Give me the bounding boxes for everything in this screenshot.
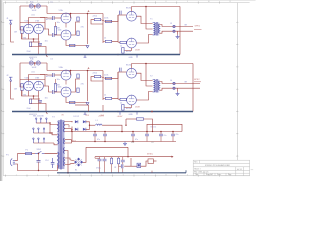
svg-text:100k: 100k (58, 30, 62, 32)
wire grid V2B ch1 (54, 34, 61, 36)
wire bypass drop ch2 (38, 96, 40, 112)
bus ground tick 2 ch2 (84, 112, 87, 115)
ground speaker ch2 (176, 92, 180, 96)
svg-text:1: 1 (16, 174, 17, 176)
wire B+ filter rail (72, 131, 182, 133)
wire R23 top (118, 157, 120, 159)
svg-text:100R: 100R (32, 10, 37, 12)
wire HT secondary bottom (65, 129, 73, 131)
wire NTC out stepped (141, 161, 148, 166)
chassis 0V line (57, 172, 186, 174)
wire C15 top (99, 157, 101, 160)
wire driver cathode ch1 (66, 40, 88, 46)
svg-text:EL84: EL84 (126, 51, 132, 53)
resistor cathode Rk ch2 (29, 99, 31, 104)
wire C12 top (132, 132, 134, 135)
capacitor grid top ch1 (120, 11, 122, 15)
wire C18 bottom (160, 136, 162, 142)
capacitor coupling bottom ch2 (53, 90, 55, 94)
wire CT return vertical (71, 127, 73, 142)
triode V5B (61, 87, 71, 97)
wire cathode drop ch2 (33, 96, 35, 99)
capacitor cathode bypass ch1 (38, 43, 42, 45)
capacitor grid top ch2 (120, 68, 122, 72)
wire mains to primary top (32, 153, 35, 155)
svg-text:EL84: EL84 (126, 65, 132, 67)
wires selector row3 (33, 142, 54, 144)
wire heater line ch1 (20, 5, 47, 7)
wire grid V5B ch2 (54, 91, 61, 93)
svg-text:1k: 1k (104, 37, 106, 39)
wire OT primary bottom ch1 (136, 35, 152, 44)
bus entry tick ch1 (46, 55, 47, 58)
wire OT primary top ch2 (136, 73, 152, 80)
junction C10 (94, 131, 96, 133)
wires selector row2 (33, 132, 52, 134)
svg-text:B1: B1 (75, 170, 77, 172)
svg-text:7: 7 (144, 174, 145, 176)
junction X cap (38, 153, 39, 154)
junction on bus ch2 (117, 111, 119, 113)
wire V2A plate riser ch1 (70, 14, 72, 19)
resistor R25 box (148, 159, 153, 164)
inductor L1 choke (96, 124, 103, 125)
wire cathode join ch1 (29, 34, 39, 39)
wire input ground run ch1 (11, 24, 14, 42)
wire V5A plate riser ch2 (70, 71, 72, 76)
wire bias winding bottom (65, 163, 75, 164)
wire cathode to bus ch2 (31, 104, 47, 112)
wire grid net e ch1 (112, 41, 120, 42)
svg-text:V2A: V2A (59, 9, 64, 12)
diode D2 (83, 120, 86, 123)
capacitor cathode bypass ch2 (38, 100, 42, 102)
wire V1B plate ch1 (43, 18, 45, 30)
pentode output bottom ch1 (127, 38, 137, 48)
junction CT rail (71, 131, 72, 132)
svg-text:6: 6 (123, 1, 124, 3)
wire preamp B+ rail ch1 (47, 13, 103, 15)
svg-text:220k: 220k (93, 16, 97, 18)
wire R22 top (111, 157, 113, 159)
svg-text:100k: 100k (31, 14, 35, 16)
resistor R23 vertical (118, 158, 120, 164)
svg-text:1k: 1k (104, 94, 106, 96)
wire HT CT (65, 128, 72, 130)
junction heater center ch1 (34, 5, 36, 7)
wire plate load top ch2 (55, 79, 57, 84)
wire V5B plate ch2 (71, 79, 80, 92)
junction choke (121, 131, 123, 133)
net stubs into ch2 bus (88, 105, 90, 112)
wire cathode join ch2 (29, 91, 39, 96)
wire X cap bottom (38, 162, 40, 170)
resistor output cathode ch1 (122, 48, 124, 54)
bus heater/ground ch1 (12, 54, 180, 56)
junction rail-plate ch2 (70, 70, 72, 72)
svg-text:Id: 1/1: Id: 1/1 (237, 169, 242, 171)
triode V1A (24, 24, 34, 34)
capacitor snub lower (121, 164, 123, 168)
wire NTC lower path (119, 165, 122, 167)
svg-text:22u: 22u (176, 134, 179, 136)
svg-text:1M: 1M (14, 32, 17, 34)
svg-text:EL84: EL84 (126, 8, 132, 10)
wire grid net e ch2 (112, 98, 120, 99)
pentode V6 output top (127, 68, 137, 78)
svg-text:220k: 220k (104, 17, 108, 19)
wire C16 top (104, 157, 106, 160)
connector J1 input (9, 20, 12, 24)
svg-text:4: 4 (80, 1, 81, 3)
junction on ch2 bus right (151, 111, 153, 113)
wire Rk-Ck top ch2 (31, 98, 41, 100)
svg-text:C14: C14 (45, 160, 48, 162)
resistor grid stopper top ch1 (94, 19, 100, 21)
wire cathode drop ch1 (33, 39, 35, 42)
capacitor C18 filter (159, 134, 163, 136)
wire Rk-Ck top ch1 (31, 41, 41, 43)
junction rail-screen ch2 (87, 70, 89, 72)
svg-text:3: 3 (59, 174, 60, 176)
power flag B+ ch1 (88, 10, 90, 12)
wire grid top tube ch1 (118, 14, 126, 16)
wire input ground run ch2 (11, 81, 14, 99)
wire grid feed ch1 (20, 6, 24, 30)
svg-text:Rev: Rev (194, 162, 197, 164)
wire HT secondary top (65, 121, 73, 123)
wire V4A plate ch2 (29, 75, 45, 82)
wire grid tie vertical ch2 (117, 72, 119, 98)
svg-text:9: 9 (187, 1, 188, 3)
wire plate riser top ch1 (131, 7, 133, 12)
svg-text:F: F (1, 133, 2, 135)
triode V4A (24, 81, 34, 91)
wire C11 bottom (104, 136, 106, 142)
triode V4B (34, 81, 44, 91)
wire heater CT stub ch1 (34, 6, 36, 9)
title block frame (193, 160, 249, 176)
capacitor C17 (121, 160, 125, 162)
wire screen rail vertical ch2 (87, 71, 89, 102)
junction selector row2 (49, 132, 50, 133)
resistor cathode Rk ch1 (29, 42, 31, 47)
resistor grid leak ch1 (21, 27, 23, 34)
wire grid net a ch1 (91, 20, 103, 24)
wire rail right loop (147, 124, 182, 131)
wire C16 gnd (104, 161, 106, 173)
resistor screen A ch1 (77, 17, 79, 21)
bus entry tick ch2 (46, 112, 47, 115)
svg-text:4700u: 4700u (96, 168, 101, 170)
wire dropper tap (125, 119, 127, 125)
svg-text:F: F (237, 133, 238, 135)
wire C13 bottom (146, 136, 148, 142)
wire heater CT stub ch2 (34, 63, 36, 66)
resistor grid stopper mid ch1 (105, 20, 111, 22)
svg-text:1M: 1M (14, 89, 17, 91)
wire speaker hot ch1 (160, 25, 193, 27)
svg-text:9: 9 (187, 174, 188, 176)
capacitor C19 filter (171, 134, 175, 136)
ground PSU (123, 142, 127, 146)
wire grid net c ch2 (112, 72, 118, 78)
svg-text:47u: 47u (97, 139, 100, 141)
voltage selector pins row3 (33, 138, 45, 143)
wire grid net a ch2 (91, 77, 103, 81)
wire grid net d ch2 (103, 97, 105, 99)
wire plate feed ch2 (20, 79, 45, 81)
wire grid tie vertical ch1 (117, 15, 119, 41)
wire grid net c ch1 (112, 15, 118, 21)
wire C18 top (160, 132, 162, 135)
wire C15 gnd (99, 161, 101, 173)
svg-text:1: 1 (16, 1, 17, 3)
svg-text:130R: 130R (135, 49, 140, 51)
wire B+ vertical ch1 (179, 7, 181, 55)
svg-text:Size: A4: Size: A4 (206, 173, 213, 176)
svg-text:2: 2 (37, 174, 38, 176)
wire output cathode ch2 (125, 105, 132, 108)
wire cathode left ch2 (22, 90, 29, 96)
wire 6V3 winding stub b (65, 140, 72, 143)
wire screen rail vertical ch1 (87, 14, 89, 45)
resistor R22 vertical (111, 158, 113, 164)
bus tick ch1 (136, 55, 138, 58)
wire output cathode ch1 (125, 48, 132, 51)
resistor grid lower ch2 (105, 97, 111, 99)
capacitor mains X cap (37, 161, 41, 163)
wire rail corner down (127, 147, 129, 156)
svg-text:47k: 47k (81, 83, 84, 85)
svg-text:5: 5 (101, 1, 102, 3)
svg-text:11: 11 (229, 1, 231, 3)
svg-text:6V3DC: 6V3DC (147, 154, 154, 156)
wires selector row1 (36, 122, 50, 124)
svg-text:R24: R24 (131, 142, 134, 144)
wire bypass drop ch1 (38, 39, 40, 55)
wire C17 gnd (122, 162, 124, 173)
svg-text:130R: 130R (135, 106, 140, 108)
wire cathode left ch1 (22, 33, 29, 39)
triode V1B (34, 24, 44, 34)
triode V5A (61, 70, 71, 80)
wire C13 top (146, 132, 148, 135)
wire cathode link driver ch1 (65, 23, 67, 28)
svg-text:Title: Title (195, 173, 198, 176)
wire grid bottom stub ch1 (125, 41, 127, 43)
connector speaker jack ch1 (173, 25, 175, 32)
capacitor C15 (98, 159, 102, 161)
fuse F1 (26, 153, 32, 155)
wire V4B plate ch2 (43, 75, 45, 87)
wire choke out to rail corner (102, 125, 122, 131)
svg-text:6V3: 6V3 (73, 140, 76, 142)
voltage selector pins row2 (33, 128, 45, 133)
capacitor C16 (103, 159, 107, 161)
wire C12 bottom (132, 136, 134, 142)
svg-text:4: 4 (80, 174, 81, 176)
svg-text:+320V: +320V (98, 116, 105, 118)
resistor bias lower ch2 (120, 98, 126, 100)
transformer T3 mains (58, 120, 65, 170)
junction CT tap ch1 (145, 6, 147, 8)
resistor bias lower ch1 (120, 41, 126, 43)
diode D1 (75, 120, 78, 123)
tick chassis right (185, 170, 187, 173)
svg-text:8: 8 (166, 174, 167, 176)
wire secondary CT return (65, 151, 68, 173)
junction CT chassis (67, 172, 69, 174)
wire C19 bottom (172, 136, 174, 142)
junction dropper rail (152, 131, 153, 132)
triode V2B (61, 30, 71, 40)
wire grid leak bottom ch1 (21, 34, 23, 40)
bus tick ch2 (136, 112, 138, 115)
svg-text:EL84: EL84 (126, 108, 132, 110)
power flag B+ ch2 (88, 67, 90, 69)
wire preamp B+ rail ch2 (47, 70, 103, 72)
wire grid net b ch2 (101, 77, 112, 79)
svg-text:5: 5 (101, 174, 102, 176)
ground driver tail ch2 (86, 103, 89, 105)
resistor screen A ch2 (77, 74, 79, 78)
connector J2 input (9, 77, 12, 81)
junction X cap low (38, 170, 39, 171)
wire grid V2A ch1 (54, 17, 61, 19)
connector IEC mains inlet (10, 159, 15, 166)
wire to NTC (131, 165, 137, 167)
svg-text:File: el84_pp.sch: File: el84_pp.sch (194, 171, 208, 173)
svg-text:3: 3 (59, 1, 60, 3)
wire rectifier to choke (90, 124, 96, 126)
svg-text:+300V: +300V (117, 116, 124, 118)
junction rail-plate ch1 (70, 13, 72, 15)
wire grid feed ch2 (20, 63, 24, 87)
wire interstage ch2 (45, 86, 53, 92)
wire to coupling cap ch1 (40, 17, 53, 20)
junction dropper tap (125, 125, 126, 126)
wire heater to rail ch2 (46, 63, 48, 71)
wire grid net b ch1 (101, 20, 112, 22)
wire cap feed left (95, 157, 100, 159)
junction rail-screen ch1 (87, 13, 89, 15)
capacitor C13 filter (145, 134, 149, 136)
capacitor primary snubber (51, 158, 55, 168)
svg-text:C2b: C2b (50, 58, 53, 60)
wire cathode to bus ch1 (31, 47, 47, 55)
wire OT primary top ch1 (136, 16, 152, 23)
wire OT primary bottom ch2 (136, 92, 152, 101)
svg-text:10n: 10n (57, 22, 60, 24)
wire B+ top run ch1 (132, 6, 181, 8)
wire heater line ch2 (20, 62, 47, 64)
wire C19 top (172, 132, 174, 135)
wire to coupling cap ch2 (40, 74, 53, 77)
svg-text:Date:: Date: (217, 173, 222, 176)
wire heater dc top bus (95, 156, 131, 158)
svg-text:SPK2: SPK2 (194, 79, 200, 81)
svg-text:V5B: V5B (56, 84, 61, 86)
wire C10 bottom (94, 136, 96, 142)
wire divider vertical ch1 (102, 14, 104, 44)
svg-text:47k: 47k (81, 26, 84, 28)
junction C13 (146, 131, 148, 133)
ground driver tail ch1 (86, 46, 89, 48)
wire grid net d ch1 (103, 40, 105, 42)
wire B+ vertical ch2 (192, 64, 194, 112)
pentode output bottom ch2 (127, 95, 137, 105)
wire rectifier join (86, 122, 90, 125)
wire driver cathode ch2 (66, 97, 88, 103)
capacitor C11 filter (103, 134, 107, 136)
junction heater center ch2 (34, 62, 36, 64)
diode D3 (75, 128, 78, 131)
wire bridge out (83, 147, 86, 162)
resistor output cathode ch2 (122, 105, 124, 111)
wire X cap top (38, 154, 40, 161)
junction gnd C10 (94, 141, 95, 142)
tick chassis mid (151, 171, 153, 173)
svg-text:100k: 100k (31, 71, 35, 73)
bridge rectifier B1 (74, 158, 83, 167)
svg-text:10: 10 (208, 1, 210, 3)
sheet frame border (3, 3, 249, 176)
svg-text:GND: GND (129, 57, 134, 59)
svg-text:STEREO PP EL84 AMPLIFIER: STEREO PP EL84 AMPLIFIER (205, 164, 231, 167)
pentode V3 output top (127, 11, 137, 21)
heater lamps/pot ch1 (29, 4, 40, 8)
wire plate load top ch1 (55, 22, 57, 27)
wire bias winding top (65, 158, 75, 161)
wire grid bottom stub ch2 (125, 98, 127, 100)
net label underline ch1 (194, 29, 202, 31)
junction rail-bus (127, 156, 128, 157)
wire ground bus PSU (72, 141, 176, 143)
wire HT mid tap (65, 125, 69, 128)
wire heater to rail ch1 (46, 6, 48, 14)
wire cathode link driver ch2 (65, 80, 67, 85)
wire mains neutral (15, 164, 58, 171)
title block text (194, 162, 242, 177)
wire 6V3 winding stub a (65, 139, 72, 141)
junction C18 (160, 131, 162, 133)
svg-text:6: 6 (123, 174, 124, 176)
wire Ck bottom ch1 (39, 45, 41, 47)
switch SW1 (35, 151, 44, 153)
sheet edge mark (251, 169, 254, 171)
wire OT center tap ch2 (146, 64, 153, 87)
arrow heater feed (172, 156, 174, 158)
wire Ck bottom ch2 (39, 102, 41, 104)
svg-text:D1 D2: D1 D2 (74, 116, 81, 118)
svg-text:GND: GND (129, 114, 134, 116)
resistor screen B ch1 (77, 31, 79, 36)
wire heater feed line (131, 156, 172, 158)
resistor grid stopper mid ch2 (105, 77, 111, 79)
wire grid V5A ch2 (54, 74, 61, 76)
junction CT tap ch2 (145, 63, 147, 65)
voltage selector pins row1 (36, 118, 48, 123)
svg-text:2: 2 (37, 1, 38, 3)
junction rectifier out (89, 125, 90, 126)
wire grid top tube ch2 (118, 71, 126, 73)
junction C19 (172, 131, 174, 133)
wire C17 top (122, 157, 124, 161)
resistor plate load right ch1 (54, 27, 56, 35)
junction selector (49, 122, 50, 123)
connector speaker jack ch2 (173, 82, 175, 89)
